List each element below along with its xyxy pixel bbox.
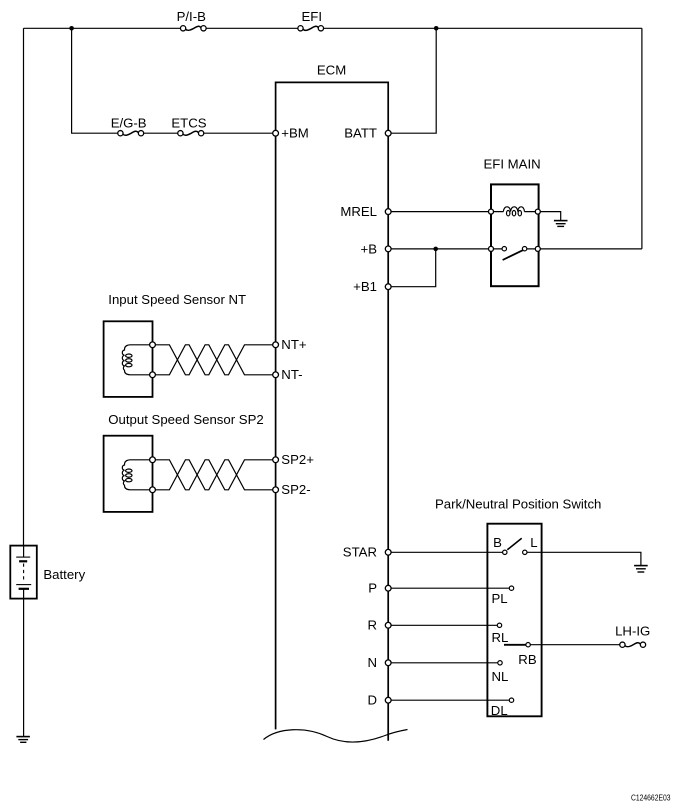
svg-text:C124662E03: C124662E03 bbox=[631, 794, 671, 803]
node terminal SP2+ bbox=[273, 457, 279, 463]
contact DL bbox=[509, 698, 513, 702]
sensor NT terminal pins bbox=[150, 342, 156, 348]
contact PL bbox=[509, 586, 513, 590]
ground relay coil bbox=[554, 221, 568, 227]
node junction dot A top-left bbox=[69, 26, 74, 31]
svg-text:LH-IG: LH-IG bbox=[615, 623, 650, 638]
svg-text:+B: +B bbox=[361, 241, 378, 256]
svg-text:MREL: MREL bbox=[340, 204, 377, 219]
node terminal +B1 bbox=[385, 284, 391, 290]
relay EFI MAIN box bbox=[491, 184, 539, 286]
svg-text:N: N bbox=[367, 655, 377, 670]
relay coil terminal pins bbox=[489, 209, 494, 214]
sensor SP2 terminal pins bbox=[150, 457, 156, 463]
node junction dot B top-middle bbox=[434, 26, 439, 31]
sensor SP2 box bbox=[104, 436, 153, 512]
svg-text:Battery: Battery bbox=[43, 567, 85, 582]
svg-text:L: L bbox=[530, 535, 537, 550]
svg-text:NT-: NT- bbox=[281, 367, 302, 382]
wire RB to LH-IG bbox=[530, 644, 620, 646]
wire from node A down and right to +BM bbox=[72, 28, 273, 133]
contact RL bbox=[497, 623, 501, 627]
svg-text:RB: RB bbox=[518, 652, 537, 667]
fuse ETCS bbox=[178, 131, 204, 136]
node terminal SP2- bbox=[273, 487, 279, 493]
svg-text:STAR: STAR bbox=[343, 545, 377, 560]
node terminal R bbox=[385, 622, 391, 628]
fuse E/G-B bbox=[118, 131, 144, 136]
wire N row bbox=[391, 662, 498, 664]
svg-text:EFI: EFI bbox=[302, 9, 323, 24]
contact RB bbox=[526, 643, 530, 647]
contact B bbox=[503, 550, 507, 554]
svg-text:Input Speed Sensor NT: Input Speed Sensor NT bbox=[108, 292, 246, 307]
svg-text:NL: NL bbox=[492, 669, 509, 684]
svg-text:Park/Neutral Position Switch: Park/Neutral Position Switch bbox=[435, 497, 601, 512]
relay switch terminal pins bbox=[489, 246, 494, 251]
wire twisted pair SP2 line 2 bbox=[155, 460, 272, 490]
node terminal +BM bbox=[273, 130, 279, 136]
svg-text:RL: RL bbox=[492, 630, 509, 645]
svg-text:B: B bbox=[493, 535, 502, 550]
sensor NT box bbox=[104, 321, 153, 397]
svg-text:D: D bbox=[367, 693, 377, 708]
svg-text:+BM: +BM bbox=[281, 126, 308, 141]
wire battery to ground bbox=[23, 599, 25, 737]
battery plates bbox=[16, 546, 31, 599]
wire twisted pair NT line 1 bbox=[155, 345, 272, 375]
wire D row bbox=[391, 699, 509, 701]
svg-text:NT+: NT+ bbox=[281, 337, 307, 352]
relay switch contacts bbox=[493, 248, 535, 250]
switch PNP box bbox=[487, 524, 541, 717]
svg-text:BATT: BATT bbox=[344, 126, 377, 141]
svg-text:DL: DL bbox=[491, 703, 508, 718]
wire top rail from battery rail corner to right corner bbox=[24, 27, 642, 29]
fuse EFI bbox=[298, 26, 324, 31]
node terminal MREL bbox=[385, 209, 391, 215]
contact NL bbox=[498, 661, 502, 665]
node terminal N bbox=[385, 660, 391, 666]
wire contact L to ground bbox=[527, 552, 641, 565]
battery BT1 box bbox=[10, 546, 37, 599]
svg-text:SP2+: SP2+ bbox=[281, 452, 314, 467]
svg-text:P/I-B: P/I-B bbox=[177, 9, 207, 24]
wire R row bbox=[391, 624, 497, 626]
wire twisted pair SP2 line 1 bbox=[155, 460, 272, 490]
contact L bbox=[523, 550, 527, 554]
wire P row bbox=[391, 587, 509, 589]
svg-text:EFI MAIN: EFI MAIN bbox=[484, 157, 541, 172]
node terminal D bbox=[385, 697, 391, 703]
relay coil winding bbox=[493, 207, 535, 216]
ground PNP switch bbox=[634, 566, 648, 572]
svg-text:R: R bbox=[367, 618, 377, 633]
svg-text:ECM: ECM bbox=[317, 63, 346, 78]
svg-text:ETCS: ETCS bbox=[171, 115, 206, 130]
svg-text:PL: PL bbox=[492, 591, 508, 606]
wire +B row with junction to right rail bbox=[391, 248, 642, 250]
wire +B1 row up to +B bbox=[391, 251, 436, 287]
switch blade B-L bbox=[507, 538, 521, 550]
node terminal NT+ bbox=[273, 342, 279, 348]
node terminal BATT bbox=[385, 130, 391, 136]
sensor SP2 coil bbox=[122, 460, 150, 490]
fuse LH-IG bbox=[620, 642, 646, 647]
svg-text:Output Speed Sensor SP2: Output Speed Sensor SP2 bbox=[108, 412, 263, 427]
node terminal STAR bbox=[385, 549, 391, 555]
switch blade RB row bbox=[504, 644, 526, 646]
wire left battery rail vertical bbox=[23, 28, 25, 545]
wire from node B down and left to BATT bbox=[391, 28, 436, 133]
wire twisted pair NT line 2 bbox=[155, 345, 272, 375]
svg-text:SP2-: SP2- bbox=[281, 482, 310, 497]
node terminal NT- bbox=[273, 372, 279, 378]
node terminal P bbox=[385, 585, 391, 591]
ECM box bbox=[276, 82, 389, 740]
relay switch blade bbox=[503, 250, 524, 260]
sensor NT coil bbox=[122, 345, 150, 375]
node junction dot +B/+B1 bbox=[433, 247, 438, 252]
ground battery bbox=[16, 737, 30, 743]
svg-text:P: P bbox=[368, 581, 377, 596]
node terminal +B bbox=[385, 246, 391, 252]
ECM bottom torn wave bbox=[264, 730, 408, 743]
svg-text:E/G-B: E/G-B bbox=[111, 115, 147, 130]
svg-text:+B1: +B1 bbox=[353, 279, 377, 294]
wire right rail vertical to +B row bbox=[641, 28, 643, 249]
fuse P/I-B bbox=[180, 26, 206, 31]
wire relay coil to ground bbox=[540, 212, 560, 220]
wire MREL row bbox=[391, 211, 488, 213]
wire STAR row to contact B bbox=[391, 551, 502, 553]
